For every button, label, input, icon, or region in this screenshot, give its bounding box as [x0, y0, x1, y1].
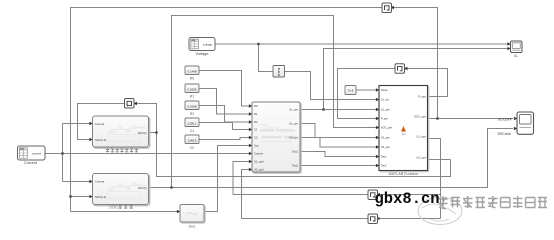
block sample-hold (voltage chain) — [273, 66, 285, 78]
wire delay4 row — [242, 218, 441, 220]
wire sub2 riser to SOC_pre: up x=171.5, along y=15.5, down x=333.5 — [172, 16, 377, 188]
svg-text:current: current — [32, 152, 41, 156]
svg-text:Noise: Noise — [381, 88, 388, 92]
wire central U1_pre to MATLAB — [300, 124, 376, 138]
wire UL_pre to MATLAB fn — [300, 109, 376, 111]
svg-text:Uoc: Uoc — [189, 225, 196, 229]
svg-text:Voltage: Voltage — [196, 51, 209, 56]
delay block P loop — [395, 64, 405, 74]
svg-text:UL_pre: UL_pre — [289, 108, 298, 112]
svg-text:U1_pre: U1_pre — [289, 122, 298, 126]
wire riser to U2_upd input port 9 — [242, 170, 251, 219]
label sub1 (CJK smudge) — [106, 149, 138, 153]
constant C2 — [185, 135, 199, 150]
wire U1_upd out — [428, 139, 441, 219]
block Voltage source (from workspace) — [189, 38, 215, 57]
svg-text:0.1448: 0.1448 — [187, 69, 197, 73]
block Current source (from workspace) — [18, 146, 46, 165]
wire SOC_upd feedback top: from junction x=437.5 up, along y=7.5, down left side x=70.5 — [71, 8, 438, 212]
wire UL_pre branch to scope — [324, 49, 510, 110]
scope SOC — [517, 112, 534, 134]
delay2 right input arrow — [404, 67, 407, 70]
svg-text:U2_upd: U2_upd — [254, 168, 264, 172]
svg-text:U1_upd: U1_upd — [416, 135, 426, 139]
wire const R2 to port 3 — [199, 106, 250, 123]
svg-text:C1: C1 — [190, 129, 194, 133]
svg-text:C2: C2 — [254, 136, 258, 140]
svg-text:MATLAB Function: MATLAB Function — [389, 172, 419, 176]
svg-text:P_upd: P_upd — [418, 95, 426, 99]
watermark logo circle — [418, 198, 462, 225]
wire P_upd delay loop — [338, 69, 448, 119]
wire sub2 SOC(t) to scope SOCreal — [149, 129, 514, 188]
svg-text:R0: R0 — [190, 77, 194, 81]
wire central Tau1 to MATLAB — [300, 152, 376, 157]
wire current to sub2 — [63, 181, 92, 183]
UL scope arrows — [507, 42, 510, 45]
block MATLAB Function EKF — [379, 86, 429, 177]
MATLAB fcn icon — [401, 126, 406, 132]
svg-text:0.0148: 0.0148 — [187, 104, 197, 108]
delay block top SOC loop — [382, 3, 392, 13]
svg-text:R1: R1 — [254, 112, 258, 116]
sub1 SOC(t-1) arrow — [89, 138, 92, 141]
wire SOC_upd out to scope — [428, 118, 514, 120]
svg-text:Uoc: Uoc — [254, 144, 259, 148]
block Uoc lookup — [180, 205, 205, 229]
svg-text:1295.1: 1295.1 — [187, 121, 197, 125]
wire sub2 SOC(t-1) branch — [71, 196, 92, 198]
constant R1 — [185, 84, 199, 99]
wire sub1 SOC(t) out — [149, 132, 157, 134]
svg-text:Current: Current — [24, 160, 38, 165]
svg-text:U2_upd: U2_upd — [416, 156, 426, 160]
wire U2_upd out loop — [428, 159, 451, 161]
svg-text:P_pre: P_pre — [381, 117, 389, 121]
SOC scope arrows — [514, 117, 517, 120]
node voltage branch — [257, 43, 259, 45]
MATLAB fn in arrows — [376, 88, 379, 91]
node sub2 SOC(t-1) branch — [69, 195, 71, 197]
sub2 SOC(t-1) arrow — [89, 195, 92, 198]
subsystem sub1 ampere-hour integration — [93, 116, 150, 153]
svg-text:Tau1: Tau1 — [292, 150, 298, 154]
svg-text:Tau2: Tau2 — [381, 164, 387, 168]
svg-text:U2_pre: U2_pre — [381, 145, 390, 149]
sub1 Current arrow — [89, 122, 92, 125]
svg-text:SOC(t-1): SOC(t-1) — [95, 138, 106, 142]
svg-text:0.0296: 0.0296 — [187, 87, 197, 91]
constant R2 — [185, 101, 199, 116]
wire current main — [45, 153, 250, 155]
svg-text:SOC(t): SOC(t) — [138, 186, 147, 190]
svg-text:R0: R0 — [254, 104, 258, 108]
wire voltage branch down to hold block — [259, 44, 273, 72]
wire const R1 to port 2 — [199, 89, 250, 115]
node delay4 out — [377, 217, 379, 219]
wire central Tau2 to MATLAB — [300, 165, 376, 167]
svg-text:C1: C1 — [254, 128, 258, 132]
wire const C2 to port 5 — [199, 138, 250, 140]
node sub1 SOC(t) branch — [155, 131, 157, 133]
central in arrows — [249, 104, 252, 107]
svg-text:UL: UL — [514, 54, 518, 58]
delay1 right input arrow — [134, 102, 137, 105]
input port arrowheads — [89, 6, 517, 213]
svg-text:voltage: voltage — [203, 42, 213, 46]
subsystem sub2 SOC real model — [93, 174, 150, 210]
svg-text:UL_ob: UL_ob — [381, 98, 389, 102]
block central state prediction subsystem — [252, 102, 301, 173]
svg-text:R2: R2 — [254, 120, 258, 124]
wire Uoc block out riser to port 6 — [204, 146, 250, 212]
svg-text:Current: Current — [95, 180, 105, 184]
node sub2 riser branch — [170, 186, 172, 188]
wire current to sub1 — [63, 123, 92, 125]
svg-text:7e-5: 7e-5 — [348, 88, 354, 92]
constant noise covariance — [345, 86, 356, 95]
sub2 Current arrow — [89, 180, 92, 183]
svg-text:SOC_upd: SOC_upd — [414, 115, 426, 119]
scope UL — [511, 41, 523, 58]
svg-text:Tau1: Tau1 — [381, 155, 387, 159]
delay block U2 loop — [368, 214, 378, 224]
wire Uoc table input (bottom left long) — [71, 211, 179, 213]
svg-text:C2: C2 — [190, 146, 194, 150]
svg-text:R2: R2 — [190, 112, 194, 116]
svg-text:Tau2: Tau2 — [292, 164, 298, 168]
svg-text:Current: Current — [254, 152, 263, 156]
watermark CJK team name (drawn glyph smudge) — [439, 196, 548, 209]
constant R0 — [185, 66, 199, 81]
svg-text:SOC(t-1): SOC(t-1) — [95, 195, 106, 199]
wire sub1 delay loop — [78, 104, 157, 140]
delay1b right input arrow — [391, 6, 394, 9]
wire const C1 to port 4 — [199, 123, 250, 130]
svg-text:SOC(t): SOC(t) — [138, 131, 147, 135]
wire noise const to MATLAB fn — [356, 89, 376, 91]
node SOC_upd branch — [436, 117, 438, 119]
svg-text:UL_pre: UL_pre — [381, 108, 390, 112]
wire sub1 branch down to long bottom bus — [157, 133, 451, 177]
svg-text:R1: R1 — [190, 95, 194, 99]
delay block sub1 loop — [125, 99, 135, 109]
svg-text:U2_pre: U2_pre — [289, 136, 298, 140]
wire voltage main — [215, 43, 510, 45]
svg-text:SOCreal: SOCreal — [497, 132, 510, 136]
wire central U2_pre to MATLAB — [300, 138, 376, 148]
svg-text:SOC_pre: SOC_pre — [381, 126, 393, 130]
node current branch — [61, 152, 63, 154]
wire riser to U1_upd input port 8 — [233, 162, 250, 195]
wire delay3 row — [233, 194, 441, 196]
svg-text:Current: Current — [95, 122, 105, 126]
svg-text:U1_pre: U1_pre — [381, 136, 390, 140]
constant C1 — [185, 118, 199, 133]
delay3 right input arrow — [377, 193, 380, 196]
svg-text:gbx8.cn: gbx8.cn — [375, 190, 440, 208]
delay block U1 loop — [368, 190, 378, 200]
node UL_pre branch — [322, 108, 324, 110]
svg-text:fcn: fcn — [402, 132, 406, 136]
svg-text:1248.5: 1248.5 — [187, 138, 197, 142]
svg-text:U1_upd: U1_upd — [254, 160, 264, 164]
svg-text:SOCEKF: SOCEKF — [498, 118, 512, 122]
Uoc block input arrow — [177, 210, 180, 213]
wire hold block to UL_ob — [285, 72, 377, 100]
wire const R0 to port 1 — [199, 71, 250, 107]
wire current branch vertical — [62, 124, 64, 182]
svg-text:SOC: SOC — [109, 205, 118, 210]
